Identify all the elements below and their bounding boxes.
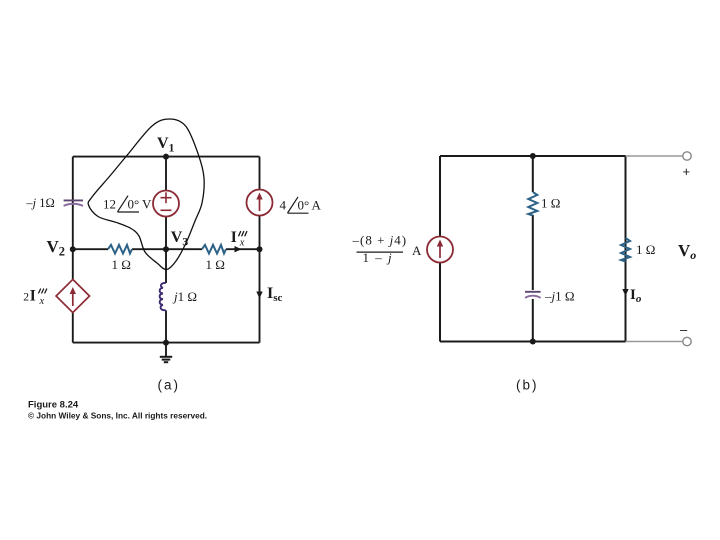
svg-text:(a): (a) <box>158 378 181 393</box>
svg-text:x: x <box>239 237 245 248</box>
svg-text:Figure 8.24: Figure 8.24 <box>28 400 79 411</box>
svg-text:A: A <box>312 197 322 212</box>
svg-text:2: 2 <box>23 291 29 303</box>
svg-text:1 Ω: 1 Ω <box>541 196 560 211</box>
svg-text:–j 1Ω: –j 1Ω <box>25 196 54 210</box>
svg-text:I: I <box>231 229 237 246</box>
svg-text:1 Ω: 1 Ω <box>206 257 225 272</box>
svg-text:4: 4 <box>280 197 287 212</box>
svg-text:j1 Ω: j1 Ω <box>172 289 197 304</box>
svg-text:0°: 0° <box>298 197 310 212</box>
svg-text:–j1 Ω: –j1 Ω <box>544 289 575 304</box>
svg-text:x: x <box>39 296 45 307</box>
svg-text:+: + <box>683 164 691 179</box>
svg-text:–: – <box>680 322 688 337</box>
svg-text:A: A <box>412 243 422 258</box>
svg-text:1 Ω: 1 Ω <box>636 242 655 257</box>
svg-text:(b): (b) <box>516 378 539 393</box>
svg-text:–(8 + j4): –(8 + j4) <box>352 233 408 248</box>
svg-text:I: I <box>30 287 36 304</box>
svg-text:0°: 0° <box>128 197 140 212</box>
svg-text:12: 12 <box>103 197 116 212</box>
svg-text:© John Wiley & Sons, Inc. All: © John Wiley & Sons, Inc. All rights res… <box>28 411 207 421</box>
svg-text:V: V <box>142 197 152 212</box>
svg-text:1 Ω: 1 Ω <box>112 257 131 272</box>
